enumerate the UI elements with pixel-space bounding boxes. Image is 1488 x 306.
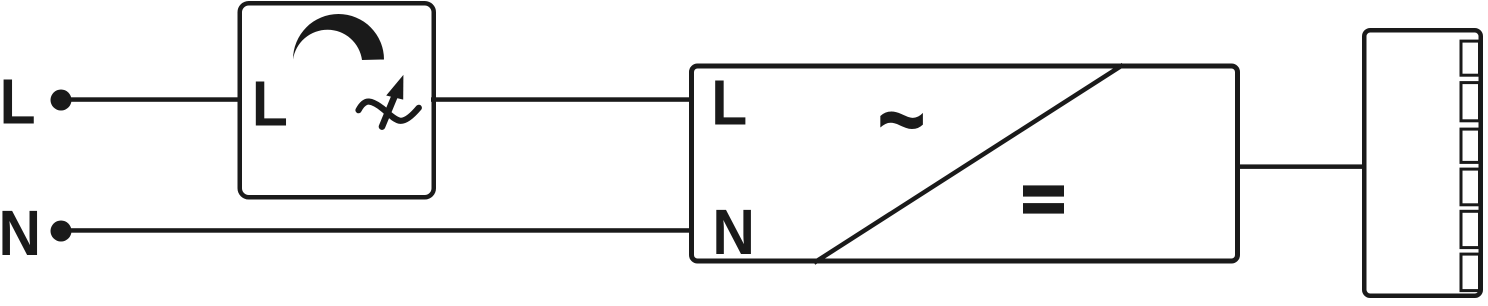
- terminal clamp 1: [1461, 41, 1480, 75]
- svg-text:N: N: [0, 198, 41, 270]
- DC equals symbol bar 1: [1023, 185, 1064, 196]
- wire: dimmer to driver: [431, 97, 694, 102]
- svg-text:N: N: [712, 197, 755, 269]
- wire: driver to terminal block: [1235, 164, 1366, 169]
- svg-text:~: ~: [877, 57, 926, 181]
- dimmer rotary knob arc symbol: [293, 14, 384, 60]
- dimmer S1 box: [240, 3, 434, 197]
- terminal clamp 3: [1461, 129, 1480, 162]
- terminal clamp 5: [1461, 211, 1480, 247]
- dimmer phase-control symbol: arrow shaft: [382, 95, 395, 127]
- dimmer phase-control symbol: arrow head: [386, 75, 403, 100]
- dimmer phase-control symbol: sine wave: [359, 102, 419, 121]
- terminal clamp 2: [1461, 83, 1480, 121]
- node L terminal dot: [51, 90, 72, 111]
- svg-text:L: L: [252, 68, 288, 140]
- terminal clamp 4: [1461, 169, 1480, 205]
- DC equals symbol bar 2: [1023, 203, 1064, 214]
- svg-text:L: L: [0, 66, 36, 138]
- AC/DC separator diagonal line: [814, 65, 1123, 263]
- node N terminal dot: [51, 221, 72, 242]
- wire L: dot to dimmer: [61, 97, 242, 102]
- driver U1 box (LED power supply): [692, 66, 1238, 261]
- terminal clamp 6: [1461, 254, 1480, 291]
- wire N: dot to driver: [61, 228, 694, 233]
- svg-text:L: L: [711, 67, 747, 139]
- terminal block X1 body: [1364, 30, 1481, 296]
